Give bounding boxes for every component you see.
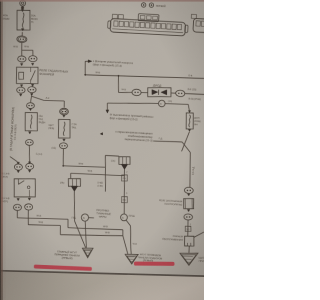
wire crossing X xyxy=(182,142,191,152)
diode box xyxy=(148,87,172,97)
fuse F1 element xyxy=(22,13,24,28)
wire corner from L1 L2 down to ground G2 xyxy=(122,230,124,236)
relay coil xyxy=(19,72,24,79)
fuse element xyxy=(189,115,191,127)
wire W1 corner up to block B2 xyxy=(104,155,107,167)
diode symbol xyxy=(152,90,158,95)
switch connector right xyxy=(26,163,34,170)
ground G3 - instrument panel xyxy=(180,253,198,266)
wire split to relay pins xyxy=(21,42,23,50)
fuse F1 40A MAIN - box xyxy=(17,10,31,30)
ground G1 - front panel harness xyxy=(82,248,93,258)
connector 14 xyxy=(25,139,33,145)
switch connector left xyxy=(14,164,22,171)
service connector box xyxy=(184,236,194,246)
wire code box xyxy=(121,175,127,181)
wire C3 left to off-page arrow xyxy=(107,102,158,104)
red marker underline left xyxy=(34,265,92,271)
wire C3 right to fuse ECU-B xyxy=(165,103,188,106)
switch contact xyxy=(17,179,19,185)
wire to diode connector xyxy=(118,91,132,94)
wire bus W-B horizontal xyxy=(85,75,204,79)
wire diagonal into service connector xyxy=(194,232,204,238)
relay contact xyxy=(31,70,36,81)
connector (battery ring terminal) xyxy=(20,0,26,6)
pin arrow under block B1 xyxy=(71,186,78,191)
wire splice C2 to ground G2 xyxy=(126,220,131,226)
splice C2 xyxy=(120,214,127,221)
connector left of diode xyxy=(132,89,142,96)
connector view fragment right xyxy=(191,14,208,32)
connector pin A xyxy=(17,56,26,62)
pin above switch connector left xyxy=(17,162,19,164)
wire splice S1 right stub xyxy=(89,217,94,219)
wire from connector block B1 down to ground G1 xyxy=(74,191,76,221)
wire V3 down right side xyxy=(189,152,191,187)
wire: battery feed into main fuse xyxy=(21,6,23,9)
connector 16A xyxy=(26,103,34,109)
wire xyxy=(171,92,176,94)
fuse element xyxy=(63,122,65,136)
switch output connector right xyxy=(24,204,32,211)
wire stub from left to switch xyxy=(10,157,17,162)
fuse 7.5A TAIL box xyxy=(58,119,71,138)
wire from relay to fuse 15A xyxy=(30,96,33,103)
fuse 7.5A box right xyxy=(188,111,190,113)
pin under connector C xyxy=(19,94,21,96)
connector pin B xyxy=(28,55,37,61)
relay - tail light relay box xyxy=(16,67,38,84)
switch output connector left xyxy=(13,204,21,211)
connector view: junction block (instrument panel) xyxy=(107,12,188,36)
connector pin C xyxy=(17,87,26,93)
connector right of diode xyxy=(175,90,185,97)
wire fuse to connector xyxy=(21,32,23,36)
fuse element xyxy=(30,115,32,129)
wire from comb switch label xyxy=(153,140,182,143)
pin arrow under block B2 xyxy=(121,164,127,169)
arrow before comb switch label xyxy=(100,133,102,135)
splice C3 xyxy=(158,100,165,107)
wire stub down from W1 xyxy=(105,167,106,191)
wire tap down to diode row xyxy=(117,76,120,93)
red marker underline right xyxy=(134,262,175,266)
connector pin D xyxy=(28,86,37,92)
wire code box 2 xyxy=(121,196,127,202)
connector 1B xyxy=(59,143,67,149)
wire L1 to ground bus xyxy=(16,211,18,218)
wire code box xyxy=(185,226,191,231)
wire 15A TAIL down to switch xyxy=(29,145,30,163)
wire xyxy=(141,91,148,93)
wire splice S1 down to ground G1 xyxy=(84,221,87,247)
pin above switch connector right xyxy=(28,162,30,164)
wire B2 down to splice C2 xyxy=(123,169,125,214)
wire W1 W-B to right xyxy=(63,166,105,167)
connector right column top xyxy=(184,187,193,194)
legend bolt symbols xyxy=(141,3,146,8)
wire diode out to right edge xyxy=(184,93,204,96)
wire fuse TAIL down to bus W1 xyxy=(62,149,65,166)
connector block B1 xyxy=(68,178,80,186)
wire service connector to ground G3 xyxy=(188,246,190,253)
fuse 15A TAIL box xyxy=(25,112,38,131)
ground G2 - instrument panel harness xyxy=(125,254,138,264)
wire L2 to ground bus xyxy=(27,210,30,225)
rear lights control unit box xyxy=(183,198,193,209)
connector 16 xyxy=(59,108,68,115)
connector right column bottom xyxy=(184,214,193,220)
splice S1 xyxy=(81,214,88,221)
wire bus corner with off-page arrow xyxy=(84,61,87,75)
wire from relay out to fuse 7.5A TAIL xyxy=(30,93,32,95)
connector block B2 xyxy=(119,156,131,164)
wire W2 from block B1 to right xyxy=(70,173,72,178)
diagram frame bottom border xyxy=(0,270,204,277)
wire down from connector xyxy=(187,220,190,236)
connector 2-pin (engine room main) xyxy=(17,36,27,43)
switch - rear fog light switch box xyxy=(14,178,36,197)
